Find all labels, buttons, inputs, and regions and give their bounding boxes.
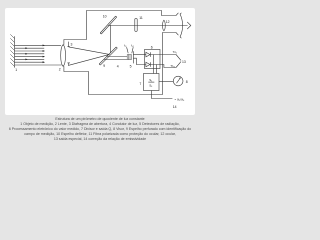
svg-text:14: 14 [173, 105, 177, 109]
svg-text:8: 8 [186, 80, 188, 84]
ray 2 [15, 47, 45, 49]
viewing axis to eye [108, 25, 188, 27]
filter stack 5 [127, 55, 131, 60]
aperture stop 3 bottom [68, 63, 70, 66]
output wire 14 [152, 91, 173, 99]
box 7 (divider) [144, 74, 160, 91]
eye cornea arc [180, 14, 183, 37]
eye direction open arrow [187, 22, 191, 29]
caption line 1 [0, 117, 200, 122]
ray 8 (bottom boundary) [15, 64, 62, 66]
housing outline lower [64, 66, 158, 94]
svg-text:6: 6 [151, 46, 153, 50]
svg-text:1: 1 [15, 68, 17, 72]
lambda4 leader [132, 47, 133, 53]
light guide 4 [107, 56, 127, 58]
ray 3 [15, 50, 45, 52]
tap wire S4 [156, 65, 158, 74]
converging ray top [69, 47, 110, 55]
ray 4 [15, 53, 45, 55]
photodiode D2 [146, 62, 150, 67]
svg-text:5: 5 [130, 64, 132, 68]
caption line 4 [0, 132, 200, 137]
mirror M9 (partly transmitting) [99, 47, 117, 65]
housing outline upper [64, 11, 176, 45]
svg-text:7: 7 [139, 82, 141, 86]
svg-text:S₁: S₁ [149, 78, 152, 82]
splitter plate [132, 51, 134, 63]
svg-text:13: 13 [182, 60, 186, 64]
white diagram panel [5, 8, 195, 116]
link plate to detector 1 [133, 54, 146, 56]
box 6 (detectors / processing) [145, 50, 161, 69]
ray 6 [15, 58, 45, 60]
tap wire S1 [153, 55, 155, 74]
ray 1 (top boundary) [15, 44, 62, 46]
svg-text:3: 3 [71, 42, 73, 46]
lens L2 (objective) [61, 45, 66, 67]
wire box7 to meter [159, 81, 173, 83]
converge diagonal 2 [176, 62, 181, 68]
aperture stop 3 top [68, 42, 70, 47]
wall (measurement object 1) [14, 36, 16, 67]
wall hatching [10, 34, 14, 66]
svg-text:λ₁: λ₁ [124, 43, 126, 47]
labels [15, 14, 188, 109]
svg-text:2: 2 [59, 68, 61, 72]
element 11 (protection filter) [135, 19, 137, 32]
ray 5 [15, 56, 45, 58]
fraction bar in box 7 [148, 81, 154, 83]
mirror M10 (deflection) [100, 16, 117, 34]
ocular lens 12 [163, 20, 166, 31]
svg-text:λ₄: λ₄ [131, 43, 134, 47]
converging ray bottom [69, 54, 110, 65]
caption line 5 [0, 137, 200, 142]
svg-text:≈ Iλ₁/Iλ₄: ≈ Iλ₁/Iλ₄ [175, 98, 186, 102]
output line T-lambda-1 [150, 54, 176, 56]
eyepiece flare bottom [176, 33, 178, 36]
ray 7 [15, 61, 45, 63]
svg-text:4: 4 [117, 64, 119, 68]
converge diagonal 1 [176, 55, 181, 61]
svg-text:S₄: S₄ [149, 84, 153, 88]
link plate to detector 2 [133, 58, 146, 64]
caption line 3 [0, 127, 200, 132]
svg-text:10: 10 [103, 14, 107, 18]
meter 8 [173, 76, 183, 86]
svg-text:9: 9 [103, 64, 105, 68]
lambda1 leader [127, 47, 129, 53]
meter needle [177, 79, 180, 84]
photodiode D1 [146, 52, 150, 57]
arrowheads on rays [25, 45, 45, 64]
svg-text:11: 11 [139, 16, 143, 20]
svg-text:Tλ₁: Tλ₁ [173, 50, 177, 54]
eyepiece flare top [176, 13, 178, 16]
caption line 2 [0, 122, 200, 127]
housing right wall [158, 33, 177, 95]
vertical beam M9 to M10 [110, 25, 112, 53]
needle arrowhead [179, 77, 181, 79]
output line T-lambda-4 [150, 65, 176, 68]
svg-text:12: 12 [166, 20, 170, 24]
